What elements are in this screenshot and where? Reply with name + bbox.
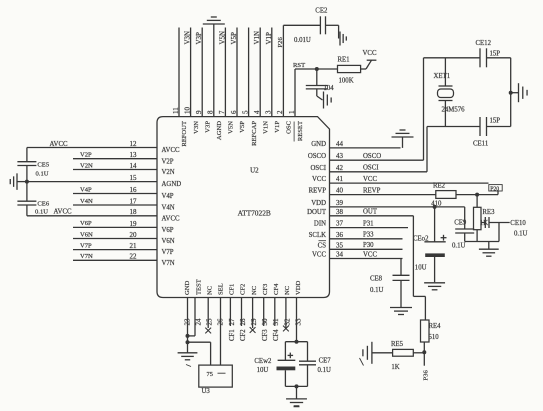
pin 1 stub (top) [294,69,296,117]
pin 30 stub (bottom) [263,298,265,327]
junction RE4/RE5 [422,350,426,354]
svg-text:V1P: V1P [265,32,273,45]
svg-text:U2: U2 [250,167,259,175]
svg-text:CEw2: CEw2 [254,358,272,365]
svg-text:CS: CS [318,242,327,249]
wire pin 17 (left) [73,204,157,206]
svg-text:12: 12 [130,140,138,148]
wire OSCO riser [423,58,425,160]
svg-text:29: 29 [250,318,258,326]
wire decoupling bottom rail [285,385,307,387]
wire pin 15 (left) [27,181,157,183]
wire to U3 left pin [188,341,211,343]
pin 8 stub (top) [213,24,215,117]
svg-text:RE4: RE4 [429,323,442,330]
svg-text:RESET: RESET [297,121,304,141]
svg-text:V1N: V1N [262,121,269,134]
pin 4 stub (top) [259,28,261,117]
pin 33 stub (bottom) [296,298,298,342]
svg-text:14: 14 [130,162,138,170]
svg-text:CE10: CE10 [510,220,526,227]
svg-text:NC: NC [284,285,291,295]
wire pin 19 (left) [73,226,157,228]
ground (left of RE5, rotated) [371,342,373,364]
svg-text:10U: 10U [257,367,269,374]
CEo2 plus sign [441,237,447,239]
svg-text:22: 22 [130,253,138,261]
svg-text:V6N: V6N [80,231,93,238]
svg-text:SEL: SEL [218,283,225,295]
svg-text:VDD: VDD [311,200,326,207]
svg-text:1: 1 [288,110,296,114]
svg-text:41: 41 [336,175,344,183]
pin 11 stub (top) [178,28,180,117]
svg-text:CE9: CE9 [454,220,467,227]
svg-text:AGND: AGND [216,121,223,140]
svg-text:6: 6 [230,110,238,114]
crystal XET1 [444,58,446,86]
wire pin 2 net to CE2 [283,24,320,26]
svg-text:16: 16 [130,186,138,194]
pin 5 stub (top) [248,28,250,117]
svg-text:GND: GND [184,280,191,295]
svg-text:0.1U: 0.1U [36,170,49,177]
wire pin 12 (left) [27,147,157,149]
svg-text:V2N: V2N [80,162,93,169]
resistor RE5 [393,349,414,356]
capacitor CE8 [393,274,410,276]
pin 31 stub (bottom) [274,298,276,327]
svg-text:26: 26 [217,318,225,326]
svg-text:CF2: CF2 [240,284,247,295]
no-connect X pin 29 [250,327,256,333]
wire 104 cap to ground [316,89,318,96]
capacitor CE7 [307,342,309,362]
svg-text:15: 15 [130,174,138,182]
svg-text:CF3: CF3 [262,329,269,341]
capacitor CE2 [319,16,321,34]
ground (below 104 cap, rotated) [323,92,325,109]
svg-text:V5N: V5N [228,121,235,134]
pin 10 stub (top) [190,28,192,117]
port P20 [489,185,502,191]
svg-text:18: 18 [130,208,138,216]
wire pin 35 (right) [330,248,403,250]
capacitor CEw2 (electrolytic) [284,342,286,361]
svg-text:100K: 100K [339,78,354,85]
svg-text:31: 31 [272,318,280,326]
ground (below pin 23) [187,342,189,353]
ground (right of CE2, rotated) [339,32,341,46]
svg-text:3: 3 [265,110,273,114]
wire pin 39 (right) [330,206,465,208]
wire crystal right rail [510,58,512,127]
svg-text:V7N: V7N [80,253,93,260]
ground (below RE3 node) [479,248,499,250]
CEw2 plus sign [288,354,294,356]
wire OUT routing down [412,216,414,297]
svg-text:CF1: CF1 [229,329,236,341]
svg-text:1K: 1K [391,364,399,371]
svg-text:104: 104 [324,85,335,92]
svg-text:0.1U: 0.1U [370,287,383,294]
svg-text:V3P: V3P [195,32,203,45]
svg-text:RE5: RE5 [391,341,404,348]
pin 2 stub (top) [282,25,284,116]
pin 29 stub (bottom) [252,298,254,329]
wire pin 42 (right) [330,171,428,173]
svg-text:V1P: V1P [274,121,281,133]
svg-text:CE12: CE12 [476,40,492,47]
svg-text:39: 39 [336,199,344,207]
svg-text:ATT7022B: ATT7022B [238,208,271,217]
svg-text:OUT: OUT [363,209,378,216]
svg-text:10: 10 [183,107,191,115]
svg-text:CE6: CE6 [37,201,49,208]
svg-text:V7P: V7P [80,242,92,249]
capacitor CE10 [481,222,485,224]
ground (below CEo2) [424,282,445,284]
wire RST (pin 1 to RE1) [295,68,338,70]
resistor RE3 [474,207,482,229]
junction pin23/U3 [186,340,190,344]
wire AVCC rail (left) [26,148,28,162]
svg-text:AVCC: AVCC [50,141,68,148]
IC U2 ATT7022B body [157,117,330,298]
svg-text:34: 34 [336,251,344,259]
junction bottom rail/ground [295,384,299,388]
wire CE10 right down [498,223,500,242]
svg-text:V2P: V2P [80,152,92,159]
svg-text:V4N: V4N [162,205,175,212]
svg-text:10U: 10U [415,264,427,271]
pin 6 stub (top) [236,28,238,117]
svg-text:U3: U3 [202,388,211,395]
pin 27 stub (bottom) [229,298,231,327]
svg-text:REFOUT: REFOUT [181,121,188,147]
svg-text:510: 510 [429,334,440,341]
svg-text:CE8: CE8 [370,275,383,282]
wire pin 37 (right) [330,227,409,229]
junction on AVCC rail at AGND wire [25,180,29,184]
svg-text:AVCC: AVCC [162,215,180,222]
wire pin 21 (left) [73,249,157,251]
wire RE2 right to P20 riser [456,194,498,196]
svg-text:OSCO: OSCO [308,153,326,160]
ground (below CE8) [390,307,412,309]
svg-text:28: 28 [239,318,247,326]
svg-text:VDD: VDD [295,280,302,295]
svg-text:P31: P31 [363,220,374,227]
svg-text:CE2: CE2 [315,7,328,14]
svg-text:27: 27 [228,318,236,326]
wire pin 16 (left) [73,193,157,195]
svg-text:35: 35 [336,241,344,249]
svg-text:V3P: V3P [204,121,211,133]
svg-text:CF2: CF2 [240,329,247,341]
junction right rail / ground [509,91,513,95]
svg-text:P33: P33 [363,232,374,239]
svg-text:CE5: CE5 [37,161,49,168]
svg-text:1K: 1K [480,220,488,227]
svg-text:9: 9 [195,110,203,114]
wire pin39 down to CE9 [464,207,466,229]
svg-text:30: 30 [261,318,269,326]
svg-text:REVP: REVP [309,188,327,195]
svg-text:13: 13 [130,151,138,159]
svg-text:44: 44 [336,140,344,148]
ground (crystal, rotated) [511,92,519,94]
svg-text:5: 5 [241,110,249,114]
wire pin 18 (left) [27,215,157,217]
svg-text:11: 11 [172,107,180,114]
svg-text:V5P: V5P [230,32,238,45]
pin 23 stub (bottom) [187,298,189,343]
svg-text:CE11: CE11 [473,141,488,148]
svg-text:RE1: RE1 [338,57,350,64]
svg-text:0.1U: 0.1U [318,367,331,374]
svg-text:CF3: CF3 [262,283,269,295]
svg-text:NC: NC [206,285,213,295]
pin 25 stub (bottom) [207,298,209,329]
svg-text:24: 24 [195,318,203,326]
svg-text:40: 40 [336,187,344,195]
resistor RE4 [421,320,430,342]
wire pin 36 (right) [330,238,403,240]
svg-text:43: 43 [336,152,344,160]
svg-text:V1N: V1N [253,31,261,45]
junction pin39 wire / CEo2 [433,205,437,209]
svg-text:38: 38 [336,208,344,216]
svg-text:OSCI: OSCI [363,165,379,172]
capacitor CE6 [17,200,36,202]
svg-text:VCC: VCC [312,176,326,183]
svg-text:OSC: OSC [286,120,293,133]
pin 24 stub (bottom) [194,298,196,336]
svg-text:V5P: V5P [239,121,246,133]
pin 32 stub (bottom) [285,298,287,329]
wire pin 13 (left) [73,158,157,160]
svg-text:V6P: V6P [162,227,174,234]
svg-text:CE7: CE7 [319,357,332,364]
pin 3 stub (top) [271,28,273,117]
wire CE2 to ground [326,24,339,26]
resistor RE1 [338,65,361,72]
component U3 [199,365,233,387]
wire crystal top rail [424,57,481,59]
svg-text:P36: P36 [423,370,430,381]
svg-text:AGND: AGND [162,181,182,188]
svg-text:17: 17 [130,197,138,205]
svg-text:15P: 15P [490,51,501,58]
svg-text:19: 19 [130,220,138,228]
svg-text:0.01U: 0.01U [294,37,311,44]
junction RST / 104 cap [315,67,319,71]
svg-text:37: 37 [336,220,344,228]
svg-text:V2N: V2N [162,169,175,176]
capacitor CE9 [455,228,474,230]
junction pin33/decoupling rail [295,340,299,344]
svg-text:V6N: V6N [162,238,175,245]
svg-text:21: 21 [130,242,138,250]
wire pin 38 (right) [330,215,414,217]
wire RE4 bottom [423,342,425,352]
svg-text:CF1: CF1 [229,284,236,295]
svg-text:AVCC: AVCC [54,209,72,216]
ground (left, rotated) [17,181,27,183]
no-connect X pin 25 [205,328,211,334]
resistor RE2 [436,191,456,199]
svg-text:8: 8 [207,110,215,114]
svg-text:OSCI: OSCI [311,165,327,172]
wire bottom node to ground [488,242,490,250]
svg-text:SCLK: SCLK [309,232,326,239]
svg-text:32: 32 [283,318,291,326]
port P36 (rotated) [423,352,425,365]
no-connect X pin 32 [283,326,289,332]
svg-text:V7P: V7P [162,249,174,256]
wire RE5 left to ground [372,352,393,354]
svg-text:25: 25 [206,318,214,326]
wire pin 20 (left) [73,238,157,240]
svg-text:4: 4 [253,110,261,114]
svg-text:42: 42 [336,164,344,172]
svg-text:DIN: DIN [314,221,326,228]
wire pin 34 (right) [330,258,403,260]
pin 28 stub (bottom) [241,298,243,327]
wire pin 14 (left) [73,169,157,171]
wire decoupling top rail [285,341,307,343]
svg-text:V4N: V4N [80,198,93,205]
capacitor CE11 [479,117,481,136]
svg-text:VCC: VCC [312,252,326,259]
wire pin 41 (right) [330,182,489,184]
svg-text:CF4: CF4 [273,283,280,295]
junction pin23/pin24 [186,334,190,338]
svg-text:V5N: V5N [218,31,226,45]
ground (top, above pin 8) [203,23,225,25]
svg-text:TEST: TEST [195,279,202,295]
ground (bottom centre) [296,386,298,399]
wire pin 43 (right) [330,159,424,161]
svg-text:XET1: XET1 [434,73,451,80]
svg-text:NC: NC [251,285,258,295]
svg-text:7: 7 [218,110,226,114]
wire OSCI riser [426,127,428,172]
svg-text:CF4: CF4 [273,329,280,341]
svg-text:P26: P26 [277,37,284,48]
svg-text:15P: 15P [490,117,501,124]
svg-text:P30: P30 [363,242,374,249]
svg-text:RE3: RE3 [482,209,495,216]
svg-text:V7N: V7N [162,260,175,267]
svg-text:23: 23 [183,318,191,326]
svg-text:75: 75 [207,371,213,378]
svg-text:0.1U: 0.1U [514,230,527,237]
svg-text:0.1U: 0.1U [35,209,48,216]
wire pin 44 (right) [330,147,401,149]
capacitor CE5 [17,161,36,163]
wire junction down to CEo2 [434,207,436,242]
svg-text:36: 36 [336,231,344,239]
capacitor 104 [316,69,318,86]
pin 7 stub (top) [224,28,226,117]
svg-text:GND: GND [311,141,326,148]
svg-text:V2P: V2P [162,158,174,165]
svg-text:OSCO: OSCO [363,153,381,160]
pin 9 stub (top) [201,28,203,117]
svg-text:V3N: V3N [193,121,200,134]
wire CE9 bottom node [464,233,466,242]
svg-text:33: 33 [294,318,302,326]
svg-text:0.1U: 0.1U [452,243,465,250]
capacitor CEo2 (electrolytic) [424,241,445,243]
wire crystal bottom rail [427,126,480,128]
capacitor CE12 [479,48,481,67]
ground (above pin 44 wire) [402,137,404,148]
svg-text:REFCAP: REFCAP [251,121,258,146]
wire pin 40 (right) [330,194,436,196]
power symbol VCC [367,59,377,61]
wire pin 34 down to CE8 [400,259,402,276]
wire pin 24 to pin 23 [188,335,196,337]
pin 26 stub (bottom) [220,298,222,366]
svg-text:VCC: VCC [363,50,377,57]
svg-text:V4P: V4P [80,186,92,193]
wire node to RE3 [476,195,478,208]
svg-text:V3N: V3N [184,31,192,45]
svg-text:V6P: V6P [80,220,92,227]
wire CE8 to ground [400,280,402,307]
svg-text:CEo2: CEo2 [413,235,429,242]
svg-text:24M576: 24M576 [442,107,466,114]
svg-text:VCC: VCC [363,251,377,258]
svg-text:REVP: REVP [363,187,381,194]
junction RE2/RE3 node [475,193,479,197]
svg-text:2: 2 [276,110,284,114]
svg-text:P20: P20 [490,186,499,192]
wire RE5 right to junction [413,352,424,354]
svg-text:20: 20 [130,231,138,239]
svg-text:AVCC: AVCC [162,147,180,154]
svg-text:RE2: RE2 [433,183,446,190]
svg-text:VCC: VCC [363,176,377,183]
svg-text:RST: RST [293,62,305,69]
wire RE3 bottom [476,230,478,242]
wire pin 22 (left) [73,259,157,261]
svg-text:DOUT: DOUT [307,209,327,216]
svg-text:V4P: V4P [162,193,174,200]
wire RE1 to VCC [361,68,366,70]
